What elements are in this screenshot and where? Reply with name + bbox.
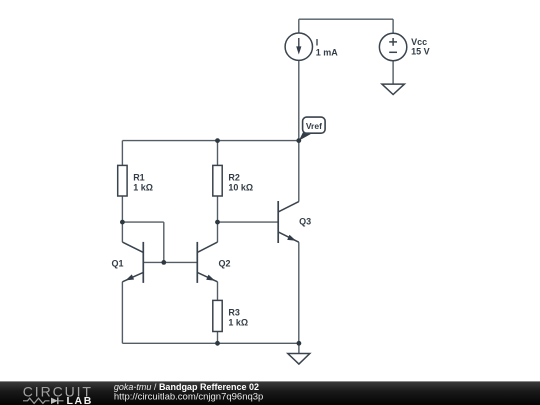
svg-text:1 kΩ: 1 kΩ xyxy=(228,318,248,328)
svg-text:I: I xyxy=(316,37,319,47)
svg-text:1 kΩ: 1 kΩ xyxy=(133,183,153,193)
wire: Q1 emitter down to bottom rail xyxy=(121,282,123,344)
svg-text:R1: R1 xyxy=(133,172,145,182)
junction: common base node xyxy=(161,260,166,265)
transistor Q3 (NPN) xyxy=(278,201,299,243)
wire: base junction vertical drop xyxy=(163,222,165,262)
transistor Q1 (mirrored NPN) xyxy=(122,242,143,283)
junction: R2 bottom / Q2 collector / Q3 base xyxy=(215,220,220,225)
junction: Q3 emitter / ground xyxy=(297,341,302,346)
CircuitLab logo: diode symbol xyxy=(51,397,64,404)
ground symbol at bottom rail xyxy=(288,354,310,365)
svg-text:1 mA: 1 mA xyxy=(316,47,339,57)
wire: node Vref down to Q3 collector xyxy=(298,141,300,202)
svg-text:http://circuitlab.com/cnjgn7q9: http://circuitlab.com/cnjgn7q96nq3p xyxy=(114,391,263,402)
wire: Q3 emitter down to bottom rail xyxy=(298,242,300,343)
ground symbol under Vcc xyxy=(382,84,405,94)
wire: R1 bottom junction to base junction horizontal xyxy=(122,221,163,223)
node Vref flag xyxy=(299,117,325,141)
junction: R1 bottom / Q1 collector xyxy=(120,220,125,225)
wire: Vcc bottom lead to ground xyxy=(392,61,394,85)
resistor R3 xyxy=(213,300,222,331)
wire: Q2 emitter to R3 top xyxy=(217,282,219,301)
value label R3 / 1 kOhm xyxy=(228,307,248,327)
resistor R2 xyxy=(213,165,222,196)
voltage source Vcc xyxy=(379,33,406,60)
wire: top rail from current source to Vcc xyxy=(299,18,393,20)
value label I / 1 mA xyxy=(316,37,339,57)
wire: common base wire Q1 to Q2 xyxy=(143,261,197,263)
svg-text:Q3: Q3 xyxy=(299,217,311,227)
junction: R2 top on rail xyxy=(215,138,220,143)
svg-text:R2: R2 xyxy=(228,172,240,182)
CircuitLab logo: resistor zigzag xyxy=(23,398,50,403)
svg-text:Vcc: Vcc xyxy=(411,37,427,47)
wire: current source bottom to node Vref xyxy=(298,60,300,140)
svg-text:10 kΩ: 10 kΩ xyxy=(228,183,253,193)
wire: second horizontal rail R1 top to node Vref xyxy=(122,140,298,142)
wire: R1 bottom to Q1 collector xyxy=(121,196,123,242)
wire: R3 bottom lead xyxy=(217,332,219,344)
footer bar background xyxy=(0,381,540,405)
svg-text:LAB: LAB xyxy=(67,395,93,405)
svg-text:Q2: Q2 xyxy=(219,258,231,268)
wire: R1 top lead xyxy=(121,141,123,166)
svg-text:15 V: 15 V xyxy=(411,47,430,57)
junction: node Vref xyxy=(296,138,301,143)
wire: ground stub at bottom rail xyxy=(298,343,300,353)
junction: R3 bottom on bottom rail xyxy=(215,341,220,346)
svg-text:R3: R3 xyxy=(228,307,240,317)
value label Vcc / 15 V xyxy=(411,37,430,57)
wire: R2 bottom junction to Q3 base xyxy=(218,221,279,223)
svg-text:goka-tmu / Bandgap Refference: goka-tmu / Bandgap Refference 02 xyxy=(114,382,259,392)
wire: bottom rail xyxy=(122,342,299,344)
svg-text:Vref: Vref xyxy=(306,121,322,131)
wire: Vcc top lead xyxy=(392,19,394,33)
svg-text:Q1: Q1 xyxy=(112,258,124,268)
value label R1 / 1 kOhm xyxy=(133,172,153,192)
current source I1 xyxy=(285,33,312,60)
transistor Q2 (NPN) xyxy=(197,242,217,283)
value label R2 / 10 kOhm xyxy=(228,172,253,192)
wire: R2 top lead xyxy=(217,141,219,166)
wire: R2 bottom to Q2 collector xyxy=(217,196,219,242)
resistor R1 xyxy=(118,165,127,196)
wire: current source top lead xyxy=(298,19,300,33)
